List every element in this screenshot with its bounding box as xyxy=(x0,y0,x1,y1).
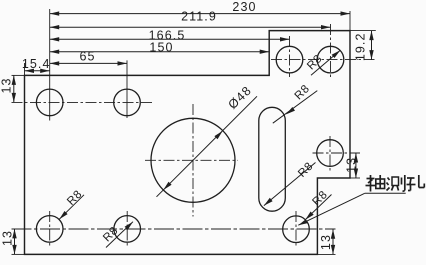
svg-text:13: 13 xyxy=(319,234,333,250)
svg-text:211.9: 211.9 xyxy=(181,10,217,24)
svg-text:13: 13 xyxy=(1,230,15,246)
svg-text:150: 150 xyxy=(149,40,173,54)
svg-text:230: 230 xyxy=(232,0,256,14)
svg-text:13: 13 xyxy=(344,157,358,173)
svg-text:19.2: 19.2 xyxy=(354,32,368,61)
svg-text:13: 13 xyxy=(0,77,14,93)
svg-text:15.4: 15.4 xyxy=(22,57,51,71)
svg-text:65: 65 xyxy=(79,50,95,64)
